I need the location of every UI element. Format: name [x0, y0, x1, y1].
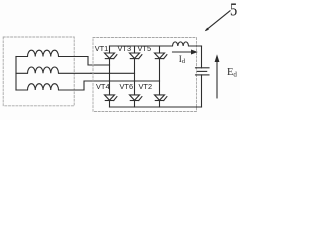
rectifier dashed box — [93, 38, 197, 112]
thyristor VT5 — [155, 46, 167, 59]
phase bus — [15, 57, 17, 91]
thyristor VT1 — [105, 46, 117, 59]
svg-text:VT1: VT1 — [95, 44, 109, 53]
leg 1 middle wire — [109, 59, 111, 95]
svg-text:VT5: VT5 — [138, 44, 152, 53]
arrow Ed — [215, 54, 220, 98]
AC source dashed box — [3, 37, 74, 106]
svg-text:VT6: VT6 — [120, 82, 134, 91]
svg-text:VT4: VT4 — [96, 82, 110, 91]
leg 2 middle wire — [134, 59, 136, 95]
wire phase a to leg 1 — [88, 57, 110, 66]
svg-text:5: 5 — [230, 1, 237, 20]
thyristor VT6 — [130, 95, 142, 107]
arrow Id — [173, 50, 198, 55]
thyristor VT3 — [130, 46, 142, 59]
svg-text:VT2: VT2 — [139, 82, 153, 91]
thyristor VT4 — [105, 95, 117, 107]
inductor La — [16, 50, 88, 56]
inductor Lc — [16, 84, 84, 90]
figure callout leader arrow — [205, 11, 230, 31]
thyristor VT2 — [155, 95, 167, 107]
wire phase b to leg 2 — [91, 72, 135, 74]
svg-text:VT3: VT3 — [118, 44, 132, 53]
positive rail with inductor Ld — [110, 42, 202, 46]
wire phase c to leg 3 — [84, 81, 160, 90]
inductor Lb — [16, 67, 91, 73]
bottom rail — [110, 106, 202, 108]
leg 3 middle wire — [159, 59, 161, 95]
battery Ed — [196, 46, 210, 107]
